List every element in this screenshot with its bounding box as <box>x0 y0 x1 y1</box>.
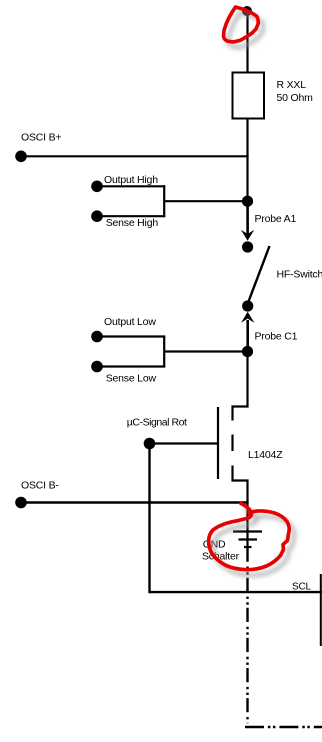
terminal uC-Signal Rot <box>144 438 156 450</box>
svg-text:GND: GND <box>203 538 226 550</box>
wire OSCI B- to MOSFET source <box>21 501 249 503</box>
wire OSCI B+ to main vertical <box>21 155 249 157</box>
svg-text:Probe A1: Probe A1 <box>255 213 297 225</box>
svg-text:Output Low: Output Low <box>104 316 156 328</box>
wire uC signal vertical down <box>148 444 150 594</box>
wire solid horizontal SCL line <box>150 591 322 593</box>
svg-text:L1404Z: L1404Z <box>248 449 283 461</box>
terminal Output High <box>91 181 103 193</box>
ground GND Schalter bar 2 <box>239 538 258 540</box>
svg-text:Sense High: Sense High <box>106 217 159 229</box>
wire Output Low to bracket <box>97 335 165 337</box>
wire bracket to junction C1 <box>164 350 248 352</box>
wire bracket vertical High <box>163 185 165 217</box>
wire gate lead <box>150 442 219 444</box>
switch blade HF-Switch <box>249 246 270 302</box>
annotation red circle around top terminal <box>224 7 259 42</box>
transistor Q1 channel dash bottom (source) <box>231 466 233 482</box>
svg-text:R XXL: R XXL <box>277 79 307 91</box>
transistor Q1 channel dash middle <box>231 435 233 452</box>
wire right edge vertical stub <box>320 574 322 646</box>
svg-text:Output High: Output High <box>104 174 158 186</box>
resistor R XXL <box>233 73 265 119</box>
terminal Output Low <box>91 331 103 343</box>
junction node C1 <box>242 346 253 357</box>
wire probe A1 arrow shaft <box>246 201 249 235</box>
wire probe C1 arrow shaft <box>246 320 249 352</box>
wire top terminal to resistor <box>246 11 248 73</box>
terminal OSCI B- <box>15 497 27 509</box>
wire Sense Low to bracket <box>97 365 165 367</box>
arrowhead probe C1 up <box>241 312 254 323</box>
switch top contact dot <box>242 241 253 252</box>
ground GND Schalter bar 1 <box>233 530 262 532</box>
wire dash-dot-dot horizontal bottom <box>245 726 322 728</box>
svg-text:Sense Low: Sense Low <box>106 373 157 385</box>
wire resistor to node A1 junction <box>246 119 248 202</box>
svg-text:HF-Switch: HF-Switch <box>277 269 322 281</box>
junction node A1 <box>242 196 253 207</box>
wire junction C1 to MOSFET drain <box>233 352 248 407</box>
svg-text:SCL: SCL <box>292 582 311 593</box>
svg-text:µC-Signal Rot: µC-Signal Rot <box>127 417 187 429</box>
transistor Q1 gate electrode <box>217 407 219 479</box>
ground GND Schalter bar 3 <box>244 546 252 548</box>
terminal Sense Low <box>91 361 103 373</box>
annotation red circle around ground <box>209 504 290 570</box>
transistor Q1 channel dash top (drain) <box>231 405 233 420</box>
svg-text:OSCI B+: OSCI B+ <box>21 132 61 144</box>
wire MOSFET source bend <box>233 481 248 548</box>
wire bracket to junction A1 <box>164 200 248 202</box>
wire Output High to bracket <box>97 185 165 187</box>
svg-text:Probe C1: Probe C1 <box>255 331 298 343</box>
terminal OSCI B+ <box>15 151 27 163</box>
svg-text:OSCI B-: OSCI B- <box>21 480 59 492</box>
terminal Sense High <box>91 210 103 222</box>
svg-text:50 Ohm: 50 Ohm <box>277 92 314 104</box>
wire dash-dot-dot vertical (net boundary) <box>246 548 248 724</box>
node top terminal <box>242 6 252 16</box>
arrowhead probe A1 down <box>241 230 254 241</box>
wire bracket vertical Low <box>163 336 165 368</box>
switch bottom contact dot <box>242 300 253 311</box>
wire Sense High to bracket <box>97 215 165 217</box>
